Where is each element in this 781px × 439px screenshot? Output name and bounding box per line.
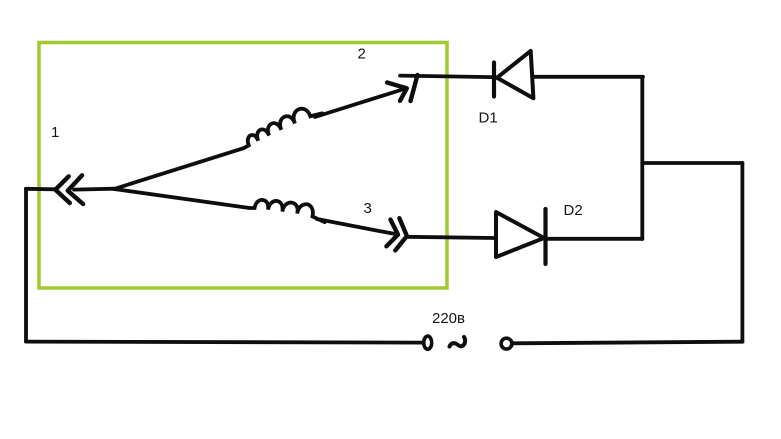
svg-text:1: 1 — [51, 124, 59, 141]
wire D1 to right bus — [534, 75, 644, 79]
wire stub bus to far right — [642, 161, 742, 165]
wire D2 to right bus — [546, 237, 643, 241]
winding shaft 1-3 right part — [317, 219, 397, 234]
diode D1 triangle — [497, 51, 533, 98]
winding shaft 1-2 upper part — [315, 89, 404, 117]
AC tilde symbol — [450, 337, 466, 347]
tick mark terminal 2 — [411, 75, 418, 101]
terminal plug left — [424, 336, 432, 349]
diode D1 cathode bar — [492, 63, 496, 97]
wire terminal3 to D2 — [407, 237, 494, 238]
stator frame (green box) — [39, 43, 447, 289]
winding shaft 1-3 left part — [114, 189, 250, 208]
arrow chevrons terminal 1 — [55, 175, 83, 204]
wire terminal2 to D1 — [400, 76, 493, 78]
svg-text:220в: 220в — [432, 310, 465, 327]
wire bottom left horizontal — [26, 342, 424, 343]
right bus vertical — [640, 77, 644, 239]
svg-text:3: 3 — [364, 200, 372, 217]
diode D2 cathode bar — [543, 209, 547, 264]
winding shaft 1-2 lower part — [114, 148, 244, 189]
wire bottom right horizontal — [512, 342, 742, 344]
terminal plug right — [501, 338, 512, 349]
coil winding 1-2 — [238, 101, 323, 148]
arrowhead terminal 2 — [387, 83, 407, 101]
wire terminal1 stub right — [74, 187, 115, 192]
wire left vertical — [24, 189, 28, 342]
diode D2 triangle — [496, 212, 544, 257]
wire terminal1 stub left — [26, 187, 55, 191]
far right vertical wire — [741, 163, 745, 342]
svg-text:D1: D1 — [479, 109, 498, 126]
arrow chevrons terminal 3 — [386, 218, 407, 250]
svg-text:D2: D2 — [564, 202, 583, 219]
svg-text:2: 2 — [358, 45, 366, 62]
coil winding 1-3 — [249, 196, 327, 223]
